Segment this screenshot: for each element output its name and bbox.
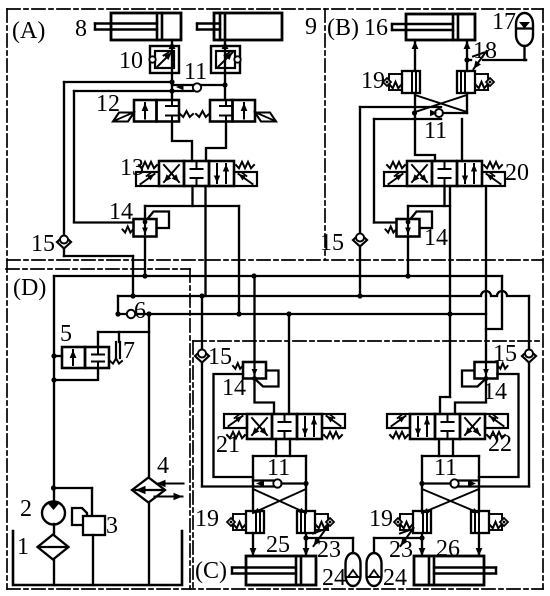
svg-text:19: 19 (361, 68, 385, 94)
svg-text:(D): (D) (13, 275, 46, 301)
svg-text:24: 24 (383, 565, 407, 591)
svg-text:3: 3 (106, 513, 118, 539)
svg-text:17: 17 (492, 9, 516, 35)
svg-text:16: 16 (364, 15, 388, 41)
svg-text:23: 23 (317, 537, 341, 563)
svg-text:10: 10 (119, 48, 143, 74)
svg-text:(A): (A) (12, 18, 45, 44)
svg-text:23: 23 (389, 537, 413, 563)
svg-text:15: 15 (208, 344, 232, 370)
svg-text:24: 24 (322, 565, 346, 591)
svg-text:1: 1 (17, 534, 29, 560)
svg-text:19: 19 (195, 506, 219, 532)
svg-text:26: 26 (436, 536, 460, 562)
svg-text:4: 4 (157, 453, 169, 479)
svg-text:11: 11 (434, 455, 457, 481)
svg-text:11: 11 (424, 118, 447, 144)
svg-text:14: 14 (109, 199, 133, 225)
svg-text:20: 20 (505, 160, 529, 186)
svg-text:(C): (C) (195, 558, 227, 584)
svg-text:19: 19 (369, 506, 393, 532)
svg-text:5: 5 (60, 321, 72, 347)
svg-text:6: 6 (134, 298, 146, 324)
svg-text:9: 9 (305, 14, 317, 40)
svg-text:(B): (B) (327, 15, 359, 41)
svg-text:2: 2 (20, 496, 32, 522)
svg-text:15: 15 (320, 230, 344, 256)
svg-text:8: 8 (75, 16, 87, 42)
svg-text:11: 11 (184, 59, 207, 85)
svg-text:13: 13 (120, 155, 144, 181)
svg-text:7: 7 (123, 338, 135, 364)
svg-text:25: 25 (266, 532, 290, 558)
svg-text:12: 12 (96, 91, 120, 117)
svg-text:11: 11 (267, 455, 290, 481)
svg-text:15: 15 (31, 231, 55, 257)
